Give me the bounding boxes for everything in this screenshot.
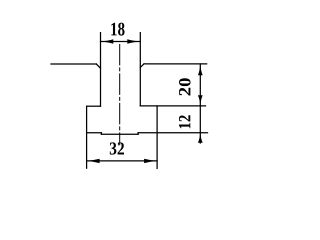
node dimension text 12 (179, 115, 190, 128)
node arrow 32 right (144, 159, 157, 163)
wire right outer wall + extension line (156, 106, 158, 168)
wire right chamfer (140, 64, 144, 68)
wire left neck wall + extension line (100, 33, 102, 107)
wire dimension line 32 (87, 160, 158, 162)
node dimension text 32 (110, 142, 124, 154)
wire bottom-left segment (87, 132, 102, 134)
wire notch step up (137, 133, 139, 134)
node arrow 12 bottom (198, 133, 203, 143)
wire dimension line 20/12 (199, 64, 201, 143)
node arrow 20 top (198, 64, 203, 75)
wire dimension line 18 (101, 41, 141, 43)
node arrow 20 bottom / 12 top (198, 95, 203, 106)
node dimension text 20 (179, 78, 191, 95)
wire left step (87, 105, 101, 107)
wire top-left surface (51, 63, 96, 65)
wire right neck wall + extension line (139, 33, 141, 106)
wire bottom-right segment + extension line (138, 132, 207, 134)
node arrow 32 left (87, 159, 100, 163)
node arrow 18 right (127, 39, 140, 43)
node arrow 18 left (101, 39, 114, 43)
wire bottom middle segment (101, 133, 138, 135)
wire right step + extension line (140, 105, 205, 107)
wire left chamfer (96, 64, 100, 68)
wire top-right surface (144, 63, 207, 65)
node centerline (119, 44, 121, 144)
wire left outer wall + extension line (86, 106, 88, 168)
wire notch step down (100, 133, 102, 134)
node dimension text 18 (111, 23, 124, 36)
